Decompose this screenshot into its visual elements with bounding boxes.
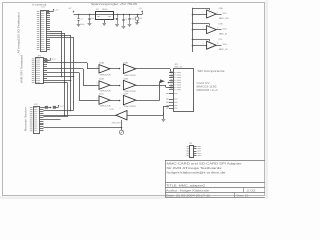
svg-text:10u: 10u [113,18,116,20]
svg-text:4: 4 [120,108,121,110]
output buffer IC3A [192,14,206,16]
capacitor C3 [117,14,119,16]
supply rail [74,14,143,16]
jumper link to VCC at JP1 pin1 [46,11,49,13]
svg-text:IC2C: IC2C [99,94,104,96]
date row + sheet cell [234,192,236,197]
svg-text:100n: 100n [81,24,85,26]
output bus vertical [192,8,194,52]
svg-text:100n: 100n [131,18,135,20]
svg-text:TITLE: MMC_adapter2: TITLE: MMC_adapter2 [166,183,206,187]
svg-text:Date: 21.05.2004 20:17:11: Date: 21.05.2004 20:17:11 [166,193,211,197]
svg-text:JP1 ATMEGA: JP1 ATMEGA [32,3,47,6]
wire below card socket [163,112,165,120]
svg-text:IC2B: IC2B [99,79,104,81]
svg-text:5: 5 [97,83,98,85]
regulator ground pin [104,19,106,23]
svg-text:X2-4: X2-4 [223,44,227,46]
svg-text:JP3: JP3 [189,143,192,145]
svg-text:4: 4 [203,27,204,29]
svg-text:X2-2: X2-2 [223,13,227,15]
wire MISO return low [44,127,122,129]
svg-text:MMC03-1192: MMC03-1192 [197,87,218,89]
svg-text:3: 3 [97,67,98,69]
wires from JP4 [44,110,74,112]
svg-text:8: 8 [217,43,218,45]
svg-text:Reserve Stecker: Reserve Stecker [24,107,28,131]
svg-text:C1: C1 [81,19,83,21]
+5V supply arrow right [142,11,144,13]
diode/elco D1 [137,14,139,16]
svg-text:74HC125N: 74HC125N [100,91,112,93]
svg-text:7: 7 [97,98,98,100]
wires buffers to card socket [138,68,170,70]
svg-text:für AVR ATmega Testboards: für AVR ATmega Testboards [167,166,223,170]
title block [165,160,265,162]
svg-text:Spannungsregler +5V 78L05: Spannungsregler +5V 78L05 [91,3,138,6]
svg-text:2: 2 [217,12,218,14]
capacitor C4 [123,14,125,16]
capacitor C1 [78,14,80,16]
SPI signal wires JP2 to buffers [47,62,87,64]
author row + REV cell [243,187,245,192]
output buffer IC3C [192,45,206,47]
page margin shading [0,196,165,199]
svg-text:MMC_CLK: MMC_CLK [219,18,229,20]
svg-text:ATmega103 IO Testboard: ATmega103 IO Testboard [17,12,21,54]
output buffer IC3B [192,29,206,31]
svg-text:10u: 10u [91,18,94,20]
svg-text:Card CV: Card CV [197,82,211,85]
junction dots SPI bus [61,76,63,78]
jumper links at JP4 top [44,107,46,109]
schematic frame border [3,3,265,196]
DI pin arrow junction [160,79,165,83]
svg-text:74HC125N: 74HC125N [112,123,122,125]
jumper link at JP2 pin1 [45,59,48,61]
wire card DO to MISO buffer [132,115,164,117]
svg-text:78L05: 78L05 [102,9,107,11]
svg-text:Author: Holger Klabunde: Author: Holger Klabunde [166,188,210,192]
svg-text:1: 1 [203,12,204,14]
+9V supply arrow [73,11,75,13]
svg-text:74HC125N: 74HC125N [124,75,136,77]
svg-text:74HC125N: 74HC125N [100,106,112,108]
capacitor C5 [129,14,131,16]
svg-text:5: 5 [217,28,218,30]
svg-text:103: 103 [41,6,44,8]
svg-text:MMC_SD: MMC_SD [175,66,183,68]
svg-text:MMC_DI: MMC_DI [219,33,227,35]
svg-text:IC2A: IC2A [99,61,104,64]
svg-text:C4: C4 [125,19,127,21]
svg-text:74HC125N: 74HC125N [100,74,112,76]
riser from JP4 to bus [67,83,69,117]
svg-text:MMC-CARD und SD-CARD SPI Adapt: MMC-CARD und SD-CARD SPI Adapter [167,161,242,165]
svg-text:MMC06 t.b.d.: MMC06 t.b.d. [197,89,220,92]
svg-text:Sheet: 1/1: Sheet: 1/1 [237,194,250,197]
svg-text:X2-3: X2-3 [223,28,227,30]
card detect pins [169,93,173,95]
pull-down node below MISO buffer [121,120,123,130]
svg-text:AVR SPI Testboard: AVR SPI Testboard [20,54,24,83]
svg-text:74HC125N: 74HC125N [124,106,136,108]
svg-text:holger.klabunde@t-online.de: holger.klabunde@t-online.de [167,170,226,174]
wire bus from JP1 down to SPI section [50,31,62,33]
svg-text:IC2D: IC2D [110,109,115,111]
svg-text:MMC_CS: MMC_CS [219,49,228,51]
svg-text:9: 9 [203,43,204,45]
svg-text:IC1: IC1 [96,9,99,11]
svg-text:IC3C: IC3C [219,39,224,41]
capacitor C2 [89,14,91,16]
svg-text:SD Components: SD Components [198,69,226,73]
svg-text:2.02: 2.02 [247,189,257,192]
